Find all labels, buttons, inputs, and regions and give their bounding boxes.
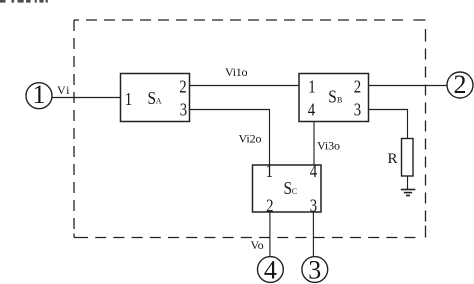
svg-text:4: 4 — [264, 256, 277, 284]
wire to terminal 3 — [312, 212, 314, 256]
svg-text:3: 3 — [180, 100, 187, 120]
svg-text:Vi2o: Vi2o — [239, 132, 262, 146]
svg-text:S: S — [147, 88, 156, 108]
svg-text:1: 1 — [308, 77, 315, 97]
svg-text:2: 2 — [454, 70, 467, 99]
svg-text:4: 4 — [310, 161, 317, 181]
svg-text:4: 4 — [308, 100, 315, 120]
wire Vi3o — [313, 122, 315, 166]
svg-text:A: A — [156, 97, 162, 106]
svg-text:Vi: Vi — [57, 83, 70, 97]
terminal 4 — [258, 256, 284, 284]
terminal 3 — [302, 256, 328, 284]
wire Vo to terminal 4 — [269, 212, 271, 256]
svg-text:Vo: Vo — [251, 238, 264, 252]
svg-text:S: S — [328, 87, 337, 107]
svg-text:C: C — [292, 187, 297, 196]
wire Vi — [52, 97, 121, 99]
svg-text:2: 2 — [179, 77, 186, 97]
block SB — [299, 74, 369, 122]
terminal 1 — [26, 80, 52, 109]
clipped text fragment top-left — [0, 0, 48, 3]
block SA — [121, 74, 190, 122]
svg-text:3: 3 — [308, 256, 321, 284]
svg-text:2: 2 — [354, 77, 361, 97]
resistor R — [402, 139, 414, 177]
wire to resistor — [369, 110, 408, 139]
wire Vi2o — [190, 110, 270, 166]
terminal 2 — [447, 70, 473, 99]
block SC — [253, 161, 322, 216]
svg-text:Vi3o: Vi3o — [317, 139, 340, 153]
svg-text:1: 1 — [33, 80, 46, 109]
wire Vi1o — [190, 85, 300, 87]
svg-text:1: 1 — [266, 161, 273, 181]
ground — [401, 190, 416, 196]
wire to terminal 2 — [369, 85, 448, 87]
wire resistor to ground — [407, 176, 409, 190]
svg-text:1: 1 — [125, 89, 132, 109]
svg-text:R: R — [387, 151, 397, 167]
svg-text:Vi1o: Vi1o — [225, 65, 248, 79]
svg-text:3: 3 — [354, 100, 361, 120]
svg-text:B: B — [337, 96, 342, 105]
dashed enclosure border — [74, 20, 426, 238]
